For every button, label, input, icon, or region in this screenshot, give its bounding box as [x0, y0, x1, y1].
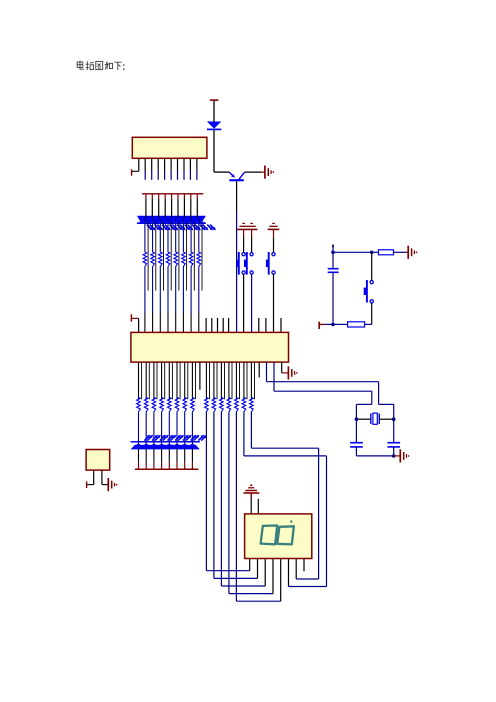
LED arrows	[183, 436, 187, 440]
wire	[251, 229, 253, 237]
wire	[145, 412, 147, 445]
bus tick	[190, 194, 192, 199]
power symbol S2	[250, 222, 253, 224]
bus tick	[183, 194, 185, 199]
bus tick	[168, 463, 170, 469]
pin	[101, 470, 103, 485]
wire	[213, 130, 215, 172]
wire	[153, 412, 155, 445]
wire	[168, 362, 170, 399]
wire	[254, 362, 256, 399]
wire	[176, 449, 178, 463]
wire	[198, 267, 200, 314]
pin	[93, 470, 95, 485]
junction	[331, 251, 335, 255]
wire	[184, 362, 186, 399]
resistor	[137, 397, 141, 412]
bus tick	[158, 194, 160, 199]
wire	[176, 362, 178, 399]
wire	[141, 362, 143, 399]
wire	[220, 362, 222, 399]
wire to display	[205, 412, 207, 571]
resistor	[174, 252, 178, 267]
unconnected stubs U2 top right	[258, 318, 260, 332]
wire	[145, 362, 147, 399]
wire	[250, 493, 252, 498]
wire	[161, 412, 163, 445]
wire	[171, 199, 173, 218]
LED arrows	[175, 436, 179, 440]
wire	[213, 101, 215, 122]
LED arrows	[147, 225, 151, 229]
wire	[158, 199, 160, 218]
wire	[186, 222, 188, 291]
wire	[332, 252, 334, 268]
IC U1	[132, 137, 207, 158]
wire	[138, 449, 140, 463]
wire	[147, 222, 149, 291]
wire	[175, 218, 177, 252]
wire	[231, 362, 233, 399]
wire	[167, 218, 169, 252]
resistor	[191, 397, 195, 412]
wire	[355, 447, 357, 456]
switch S4	[370, 281, 373, 284]
capacitor C1	[328, 268, 339, 270]
bus tick	[153, 463, 155, 469]
bus tick	[171, 194, 173, 199]
wire to display	[228, 412, 230, 594]
bus tick	[161, 463, 163, 469]
wire	[196, 199, 198, 218]
unconnected stubs U2 top middle	[205, 318, 207, 332]
wire	[161, 362, 163, 399]
resistor	[159, 252, 163, 267]
wire	[148, 362, 150, 399]
resistor	[144, 397, 148, 412]
LED arrows	[191, 436, 195, 440]
wire	[246, 362, 248, 399]
bus tick	[191, 463, 193, 469]
wire	[159, 218, 161, 252]
wire	[191, 412, 193, 445]
diode D1	[207, 122, 221, 129]
wire	[216, 362, 218, 399]
wire	[182, 267, 184, 314]
junction	[370, 251, 374, 255]
wire	[191, 449, 193, 463]
resistor	[235, 397, 239, 412]
ground	[102, 484, 108, 486]
resistor	[160, 397, 164, 412]
wire XTAL1	[266, 362, 268, 382]
wire	[159, 267, 161, 314]
pin 1 hook U1	[138, 158, 140, 171]
bus tick	[164, 194, 166, 199]
wire	[214, 171, 229, 173]
resistor	[227, 397, 231, 412]
resistor	[183, 397, 187, 412]
wire	[163, 222, 165, 291]
resistor R2	[348, 322, 365, 327]
switch S2	[250, 253, 253, 256]
resistor	[182, 252, 186, 267]
wire	[239, 362, 241, 399]
wire	[191, 362, 193, 399]
bus tick	[145, 463, 147, 469]
7-segment display DS1	[245, 514, 312, 559]
wire	[190, 199, 192, 218]
wire	[138, 362, 140, 399]
wire	[209, 362, 211, 399]
wire	[178, 222, 180, 291]
pin 1 hook U2	[130, 314, 132, 321]
wire	[177, 199, 179, 218]
wire	[170, 222, 172, 291]
power symbol S1	[242, 222, 245, 224]
wire end tick	[87, 484, 94, 486]
transistor Q1	[229, 172, 233, 176]
IC U3	[86, 450, 110, 471]
bus tick	[184, 463, 186, 469]
digit left	[261, 526, 278, 545]
wire	[224, 362, 226, 399]
wire	[372, 251, 379, 253]
ground	[407, 251, 408, 253]
wire	[144, 267, 146, 314]
wire to display	[213, 412, 215, 579]
LED arrows	[168, 436, 172, 440]
wire	[152, 218, 154, 252]
LED arrows	[170, 225, 174, 229]
wire	[164, 199, 166, 218]
wire	[193, 222, 195, 291]
wire	[243, 362, 245, 399]
power symbol display	[250, 484, 252, 486]
LED array row 1	[137, 216, 206, 223]
IC U2 main	[131, 332, 289, 362]
wire	[326, 323, 334, 325]
LED arrows	[198, 436, 202, 440]
wire	[371, 252, 373, 280]
junction	[392, 417, 396, 421]
resistor	[189, 252, 193, 267]
bus rail	[142, 193, 203, 195]
wire	[243, 274, 245, 332]
resistor	[250, 397, 254, 412]
wire	[161, 449, 163, 463]
wire	[171, 362, 173, 399]
wire	[228, 362, 230, 399]
resistor	[151, 252, 155, 267]
capacitor C3	[387, 442, 400, 444]
stub U2 bottom right	[258, 362, 260, 377]
wire	[153, 362, 155, 399]
resistor	[166, 252, 170, 267]
ground U2	[281, 362, 283, 373]
LED arrows	[185, 225, 189, 229]
bus rail 2	[135, 468, 199, 470]
power bar S1 S2	[237, 228, 258, 230]
switch S1	[242, 253, 245, 256]
ground	[394, 455, 400, 457]
wire to display via right 2	[250, 412, 252, 448]
wire	[251, 274, 253, 332]
LED array row 2	[131, 441, 200, 443]
wire	[144, 218, 146, 252]
wire	[168, 412, 170, 445]
LED arrows	[154, 225, 158, 229]
wire	[205, 362, 207, 399]
wire	[153, 449, 155, 463]
wire	[333, 323, 348, 325]
wire	[213, 362, 215, 399]
wire	[145, 449, 147, 463]
bus tick	[196, 194, 198, 199]
wire	[371, 303, 373, 325]
stub display pin 8	[303, 559, 305, 572]
switch S3	[272, 253, 275, 256]
wire	[167, 267, 169, 314]
wire	[187, 362, 189, 399]
wire	[273, 229, 275, 237]
wire to display via right 1	[243, 412, 245, 456]
wire	[273, 274, 275, 332]
wire	[145, 199, 147, 218]
ground	[261, 171, 264, 173]
LED arrows	[207, 225, 211, 229]
LED arrows	[162, 225, 166, 229]
digit right	[277, 526, 294, 544]
resistor	[220, 397, 224, 412]
resistor	[197, 252, 201, 267]
wire	[151, 199, 153, 218]
wire	[332, 273, 334, 325]
bus tick	[151, 194, 153, 199]
wire end	[332, 245, 334, 248]
wire	[138, 412, 140, 445]
wire	[168, 449, 170, 463]
bus tick	[177, 194, 179, 199]
wire	[179, 362, 181, 399]
resistor	[205, 397, 209, 412]
junction	[355, 417, 359, 421]
resistor	[168, 397, 172, 412]
wire	[198, 218, 200, 252]
wire	[195, 362, 197, 399]
wire	[355, 419, 357, 442]
wire to display	[220, 412, 222, 586]
pins U1	[144, 158, 146, 170]
wire	[164, 362, 166, 399]
resistor	[152, 397, 156, 412]
wire	[182, 218, 184, 252]
LED arrows	[152, 436, 156, 440]
colon	[123, 64, 125, 66]
capacitor C2	[350, 442, 363, 444]
wire	[152, 267, 154, 314]
wire to display	[235, 412, 237, 601]
LED arrows	[160, 436, 164, 440]
wire end tick	[319, 323, 325, 325]
resistor	[242, 397, 246, 412]
crystal Y1	[370, 413, 372, 424]
wire	[257, 499, 259, 514]
wire	[176, 412, 178, 445]
junction	[331, 323, 335, 327]
wire	[184, 412, 186, 445]
wire	[201, 222, 203, 291]
wire	[393, 447, 395, 456]
wire	[190, 218, 192, 252]
wire	[155, 222, 157, 291]
resistor	[175, 397, 179, 412]
bus tick	[138, 463, 140, 469]
title text 电路图如下	[77, 61, 121, 70]
wire emitter to U2	[236, 181, 238, 212]
wire	[365, 323, 372, 325]
wire	[332, 246, 334, 252]
LED arrows	[144, 436, 148, 440]
wire	[394, 251, 407, 253]
wire	[356, 418, 370, 420]
wire	[235, 362, 237, 399]
power rail tick	[210, 99, 219, 101]
wire	[156, 362, 158, 399]
decimal point	[290, 520, 292, 522]
wire	[184, 449, 186, 463]
resistor	[212, 397, 216, 412]
wire	[175, 267, 177, 314]
bus tick	[145, 194, 147, 199]
wire	[333, 251, 372, 253]
unconnected stub U2 bottom	[199, 362, 201, 390]
LED arrows	[192, 225, 196, 229]
wire	[243, 229, 245, 237]
LED arrows	[200, 225, 204, 229]
power symbol S3	[272, 222, 275, 224]
resistor R1	[379, 250, 394, 255]
resistor	[143, 252, 147, 267]
wire	[250, 362, 252, 399]
wire	[244, 171, 261, 173]
wire	[356, 455, 393, 457]
wire XTAL2	[273, 362, 275, 391]
bus tick	[176, 463, 178, 469]
wire	[183, 199, 185, 218]
wire	[393, 419, 395, 442]
LED arrows	[177, 225, 181, 229]
wire	[190, 267, 192, 314]
junction	[392, 454, 396, 458]
